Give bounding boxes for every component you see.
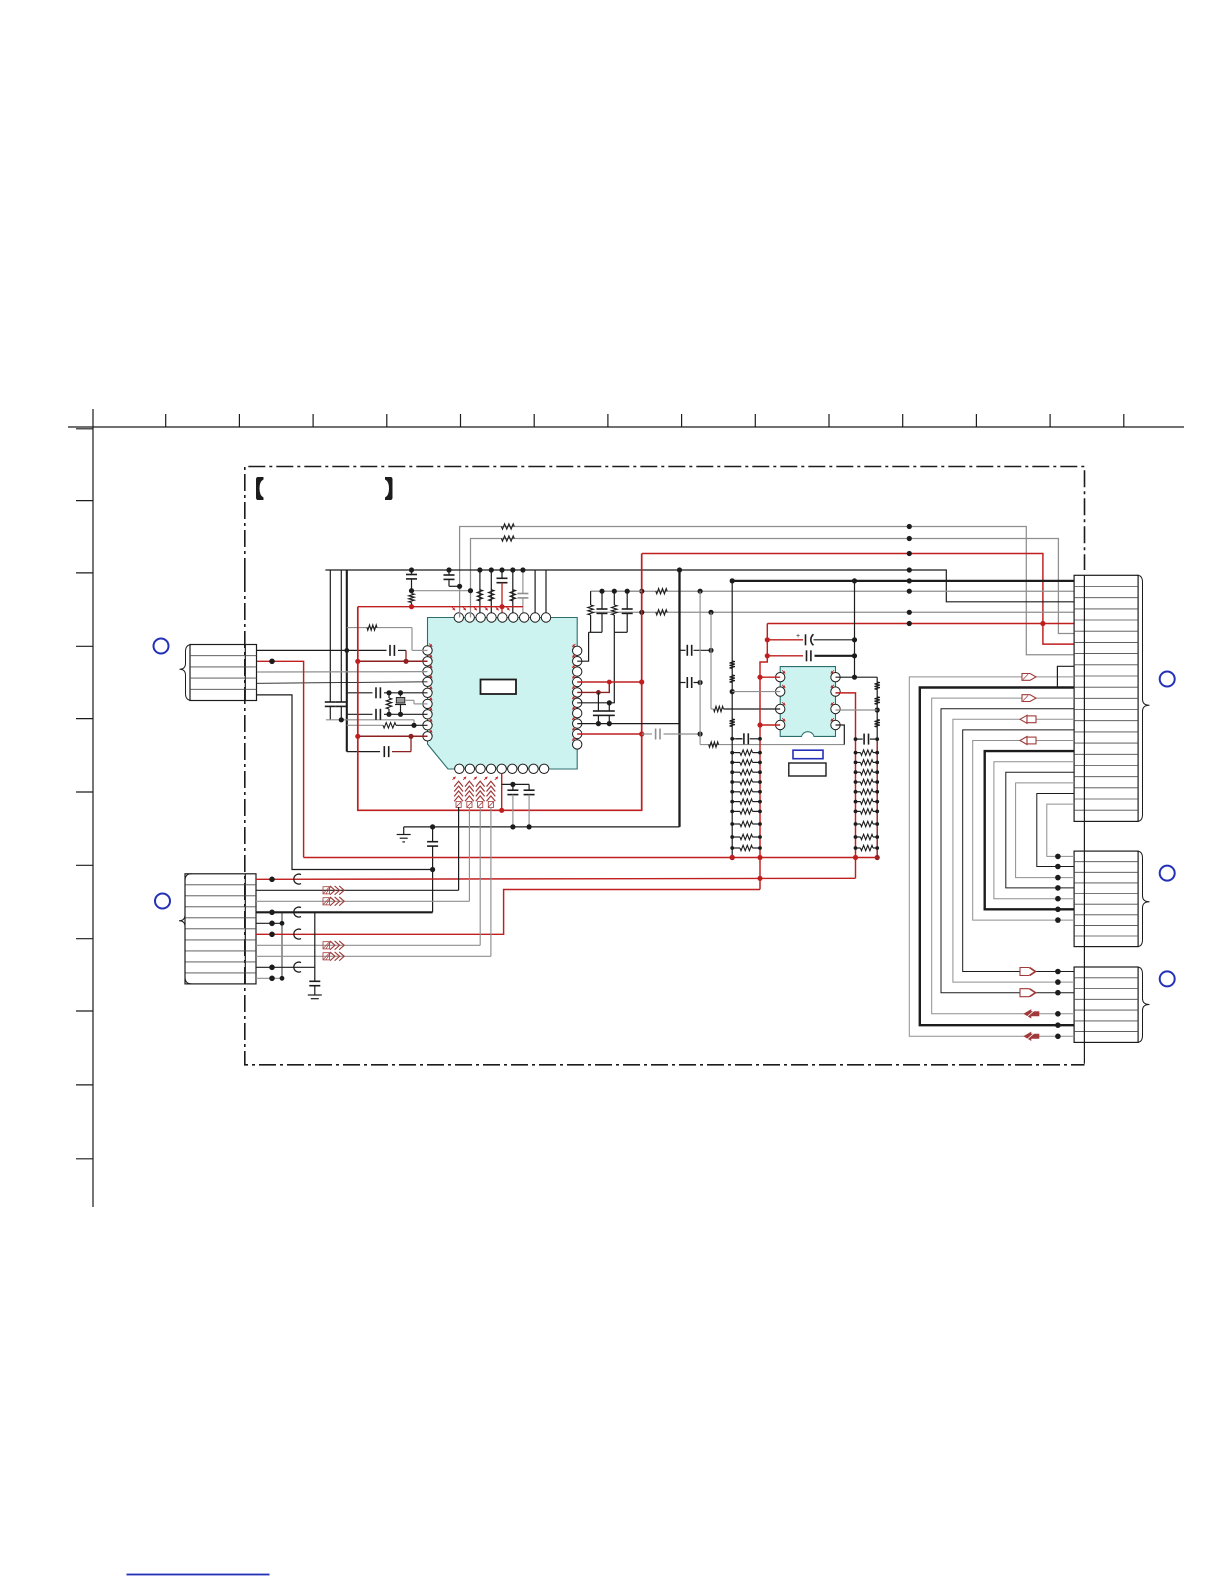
wire CN2 row10 stub xyxy=(256,976,284,982)
wire bus verticals left of U1 xyxy=(330,570,347,752)
connector CN3 (right large) xyxy=(1074,575,1138,821)
IC U1 body (QFP) xyxy=(428,618,578,770)
wire border link verticals xyxy=(1083,575,1085,1064)
connector CN4 (right middle) xyxy=(1074,851,1138,947)
connector CN2 (left lower) xyxy=(185,874,256,984)
resistor R9 xyxy=(510,590,515,601)
IC U2 pin arrows xyxy=(782,670,834,721)
wire red CN1 feed xyxy=(257,659,304,858)
wire vertical 282 xyxy=(281,912,283,978)
capacitor C10 row 751 xyxy=(347,746,411,757)
resistor R5 on row 612 xyxy=(656,610,667,615)
wire grey long row 672 from CN1 xyxy=(257,671,428,673)
wire net GND (black top row) xyxy=(325,567,1074,601)
wire CN2 row6 red xyxy=(256,890,760,940)
brace for CN1 xyxy=(180,645,193,701)
IC U1 bottom pins xyxy=(455,764,549,773)
wire net V1 (grey top row 1) xyxy=(460,524,1075,655)
IC U2 sub-label black box xyxy=(789,763,826,776)
capacitor C14 polarized row 639 xyxy=(767,633,857,645)
wire black pin row 723 xyxy=(577,723,679,725)
wire top rail stubs above U1 xyxy=(477,567,546,612)
capacitor C13 row 734 grey xyxy=(642,729,703,740)
ground symbol GND1 xyxy=(397,835,411,842)
IC U1 pin arrows xyxy=(429,607,575,780)
resistor R1 on row 1 xyxy=(501,524,514,529)
resistor R6 xyxy=(409,594,414,607)
wire red pin row 692 jog xyxy=(577,680,611,695)
wire black ladder vertical 877 xyxy=(875,677,880,860)
resistor R4 on row 591 xyxy=(656,589,667,594)
capacitor C5 xyxy=(325,702,336,720)
resistor R14 vert xyxy=(875,682,880,690)
RC pair group right of U1 xyxy=(577,589,642,703)
footer hyperlink underline xyxy=(127,1574,270,1576)
capacitor C6 xyxy=(336,702,347,720)
wire red row 661 pin2 xyxy=(355,659,427,664)
capacitor C18 column 432 xyxy=(427,827,438,912)
resistor R16 vert xyxy=(875,720,880,728)
wire CN2 row9 to cap xyxy=(256,912,315,981)
resistor R15 vert xyxy=(875,697,880,705)
IC U2 sub-label blue box xyxy=(793,750,823,759)
resistor R8 xyxy=(489,590,494,601)
wire red loop around U1 xyxy=(358,554,645,811)
wire red U2 pin2R xyxy=(836,693,856,878)
resistor ladder right of U2 xyxy=(854,734,880,851)
board outline solid segment through CN1 xyxy=(244,645,246,701)
wire U2 pin2L xyxy=(732,691,780,693)
wire grey vertical 711 with resistor R13 xyxy=(711,612,780,711)
IC U1 top pins xyxy=(454,613,551,622)
wire red pin row 682 xyxy=(577,681,642,683)
ruler horizontal scale bar xyxy=(68,414,1184,427)
resistor R2 on row 2 xyxy=(501,536,514,541)
capacitor C12 row 682 stub xyxy=(680,677,703,688)
wire red pin row 734 xyxy=(577,733,642,735)
brace for CN2 xyxy=(179,874,192,984)
connector CN5 (right lower) xyxy=(1074,967,1138,1042)
signal arrow right row 992 xyxy=(1020,989,1036,997)
connector CN1 (left upper) xyxy=(190,645,257,701)
capacitor C16 xyxy=(507,790,518,827)
wire grey row 591 to CN3 xyxy=(591,589,1075,594)
capacitor C3 xyxy=(497,578,508,612)
IC U1 label box xyxy=(481,680,517,695)
wire CN1 row5 down xyxy=(257,695,433,870)
resistor R11 crystal branch xyxy=(386,693,391,715)
capacitor C9 row 714 xyxy=(347,709,428,720)
wire CN2 row8 chevron to U1 pin xyxy=(256,807,491,961)
signal arrow left row 719 xyxy=(1020,715,1036,723)
capacitor C17 xyxy=(524,790,535,827)
capacitor C4 (grey) xyxy=(517,594,528,613)
wire black long row 682 from CN1 xyxy=(257,682,428,684)
svg-text:+: + xyxy=(796,633,800,640)
resistor R12 row 725 xyxy=(347,723,428,728)
capacitor C21 xyxy=(604,700,615,726)
wire CN2 row5 stub xyxy=(256,921,284,927)
wire grey vertical 700 xyxy=(699,591,701,744)
wire thick black row to CN3 xyxy=(732,578,1074,583)
capacitor C7 row 650 xyxy=(347,645,406,661)
wire red pin5 to loop xyxy=(499,774,504,813)
resistor R18 vert xyxy=(730,675,735,683)
IC U2 left pins xyxy=(776,673,785,730)
capacitor C11 row 650 stub xyxy=(680,645,714,656)
wire grey row 744 under U2 xyxy=(700,725,844,747)
IC U2 right pins xyxy=(831,673,840,730)
wire red row 606 above U1 xyxy=(358,604,523,609)
wire U2 pin3R xyxy=(836,709,878,711)
wire grey row 719 left of U1 xyxy=(326,717,414,725)
signal arrow left row 1013 xyxy=(1024,1010,1039,1018)
wire red vertical to U2 xyxy=(757,624,780,890)
IC U1 right pins xyxy=(573,646,582,749)
capacitor C19 with ground xyxy=(308,981,322,998)
wire CN2 row2 chevron to U1 pin xyxy=(256,807,459,895)
resistor R19 vert xyxy=(730,719,735,727)
signal arrow right row 698 xyxy=(1022,695,1036,702)
wire caps under U1 xyxy=(502,782,529,790)
capacitor C15 row 655 xyxy=(767,650,857,661)
capacitor C1 xyxy=(406,570,417,591)
wire net VDD (red top row) xyxy=(642,551,1074,644)
IC U1 left pins xyxy=(423,646,432,741)
capacitor C8 row 692 xyxy=(347,687,428,698)
marker circle C (blue) xyxy=(1160,672,1175,687)
brace for CN4 xyxy=(1137,851,1150,947)
marker circle E (blue) xyxy=(1160,971,1175,986)
marker circle A (blue) xyxy=(154,639,169,654)
brace for CN3 xyxy=(1137,575,1150,821)
wire CN2 row4 thick xyxy=(256,907,433,917)
resistor ladder left of U2 xyxy=(730,733,762,850)
signal arrow right row 971 xyxy=(1020,968,1036,976)
resistor R7 xyxy=(477,590,482,601)
chevron diode stacks under U1 xyxy=(454,781,495,807)
wire net AVDD (red row 623) xyxy=(767,621,1074,626)
capacitor C2 xyxy=(409,567,462,589)
wire grey row 591 left of U1 xyxy=(409,588,473,593)
signal arrow left row 1036 xyxy=(1024,1032,1039,1040)
wire thick vertical 679 xyxy=(677,567,682,827)
marker circle D (blue) xyxy=(1160,866,1175,881)
wire black ladder vertical 732 xyxy=(730,578,735,860)
wire CN2 row7 chevron to U1 pin xyxy=(256,807,480,950)
title bracket right xyxy=(385,477,393,500)
IC U2 body (SOIC-8) xyxy=(780,667,835,737)
signal arrow right row 677 xyxy=(1022,674,1036,681)
board outline dash-dot border xyxy=(245,467,1085,1065)
signal arrow left row 740 xyxy=(1020,737,1036,745)
crystal X1 xyxy=(395,693,428,715)
ruler vertical scale bar xyxy=(76,409,93,1207)
wire CN2 row1 red xyxy=(256,874,856,884)
resistor R17 vert xyxy=(730,661,735,669)
wire CN1 row1 xyxy=(257,648,349,653)
wire black vertical 854 to U2 pin1 xyxy=(836,581,878,680)
wire stub row 666 xyxy=(1057,666,1074,687)
wire net V2 (grey top row 2) xyxy=(471,536,1075,634)
nested bus wires CN3-CN4-CN5 xyxy=(909,677,1074,1039)
title bracket left xyxy=(256,477,264,500)
wire row 627 with resistor R10 xyxy=(347,625,428,651)
marker circle B (blue) xyxy=(155,894,170,909)
wire black row 826 with ground xyxy=(404,824,680,834)
board outline solid segment through CN2 xyxy=(244,874,246,984)
wire red rail row 857 xyxy=(304,855,878,860)
brace for CN5 xyxy=(1137,967,1150,1042)
capacitor C20 xyxy=(593,692,604,726)
wire grey row 612 to CN3 xyxy=(591,610,1075,615)
wire CN2 row3 chevron to U1 pin xyxy=(256,807,469,906)
wire red row 736 pin9 xyxy=(355,734,427,752)
